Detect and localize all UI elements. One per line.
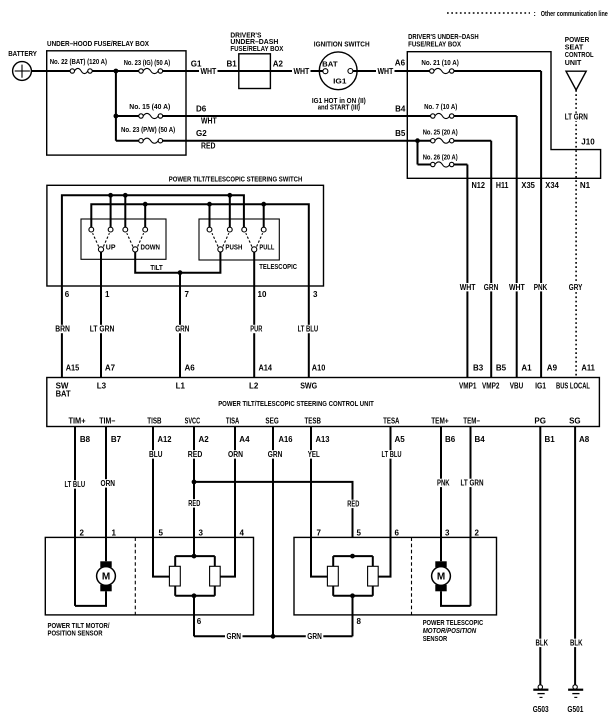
wire tilt sensor pin 6 down — [193, 596, 195, 637]
caption power tilt motor — [48, 623, 110, 638]
svg-text:VMP2: VMP2 — [482, 382, 500, 391]
svg-text:SWG: SWG — [300, 382, 317, 391]
svg-text:PG: PG — [534, 416, 546, 425]
telescopic position sensor — [311, 537, 391, 598]
wire UP contact to L3 — [100, 252, 102, 378]
wire fuse21 down to X34 — [540, 71, 542, 178]
svg-text:LT BLU: LT BLU — [298, 325, 319, 334]
svg-text:IG1: IG1 — [333, 78, 347, 85]
wire fuse26 down to N12 — [466, 165, 468, 179]
power seat control unit — [565, 37, 594, 90]
under-hood fuse/relay box — [47, 51, 186, 155]
wire ignition to driver's box A6 — [353, 59, 408, 76]
tilt switch (UP/DOWN) — [81, 219, 166, 259]
node junction under-hood G1 row — [114, 69, 119, 74]
wire TISA A4 — [227, 427, 245, 577]
svg-text:A6: A6 — [395, 59, 406, 68]
svg-text:M: M — [102, 572, 110, 583]
svg-text:BUS LOCAL: BUS LOCAL — [556, 382, 590, 391]
svg-text:RED: RED — [188, 499, 200, 508]
wire SVCC RED branch to telescopic pin 5 — [187, 480, 361, 538]
svg-text:SG: SG — [569, 416, 581, 425]
caption power telescopic motor — [423, 620, 484, 643]
svg-text:B6: B6 — [445, 435, 456, 444]
legend: other communication line — [447, 11, 608, 18]
svg-text:Other communication line: Other communication line — [541, 11, 608, 18]
svg-text:X34: X34 — [545, 181, 559, 190]
fuse No.25 (20 A) — [407, 130, 491, 144]
wire bus A (switch feed) — [62, 193, 244, 378]
svg-text:H11: H11 — [496, 181, 509, 190]
connector labels under driver's box — [472, 181, 591, 190]
wire X34 to IG1 — [532, 178, 549, 377]
svg-text:BRN: BRN — [55, 325, 70, 334]
svg-text:TIM−: TIM− — [99, 416, 115, 425]
svg-text:A10: A10 — [312, 363, 326, 372]
svg-text:LT GRN: LT GRN — [461, 479, 484, 488]
svg-text:No. 23 (IG) (50 A): No. 23 (IG) (50 A) — [124, 60, 171, 67]
svg-text:SENSOR: SENSOR — [423, 636, 448, 643]
wire GRN ground bus — [194, 632, 353, 641]
svg-text:G503: G503 — [533, 705, 549, 714]
svg-text:6: 6 — [395, 528, 400, 537]
svg-text:TEM+: TEM+ — [431, 416, 449, 425]
svg-text:BAT: BAT — [322, 61, 338, 68]
svg-text:WHT: WHT — [201, 67, 217, 76]
wire SG A8 — [569, 427, 585, 685]
svg-text:D6: D6 — [196, 104, 207, 113]
svg-text:GRN: GRN — [227, 632, 242, 641]
svg-text:POWER: POWER — [565, 37, 590, 44]
fuse No.21 (10 A) — [407, 60, 541, 74]
svg-text:FUSE/RELAY BOX: FUSE/RELAY BOX — [230, 46, 283, 53]
svg-text:VBU: VBU — [510, 382, 524, 391]
svg-text:TISB: TISB — [147, 416, 161, 425]
wire TIM- B7 — [99, 427, 117, 562]
power tilt motor/position sensor box — [45, 537, 253, 615]
svg-text:LT BLU: LT BLU — [382, 450, 402, 459]
svg-text:B1: B1 — [227, 59, 238, 68]
wire fuse25 down to H11 — [490, 141, 492, 179]
svg-text:TELESCOPIC: TELESCOPIC — [259, 264, 297, 271]
motor M1 tilt — [97, 561, 116, 591]
fuse No.26 (20 A) — [418, 141, 468, 167]
svg-text:WHT: WHT — [378, 67, 394, 76]
wire node to L1 — [179, 273, 181, 378]
svg-text:N12: N12 — [472, 181, 486, 190]
svg-text:and START (III): and START (III) — [318, 105, 360, 112]
svg-text:6: 6 — [65, 290, 70, 299]
wire dotted LT GRN bus local line — [563, 90, 595, 378]
svg-text:4: 4 — [240, 528, 245, 537]
svg-text:ORN: ORN — [101, 479, 116, 488]
wire TEM+ B6 — [436, 427, 452, 562]
wire PULL contact to L2 — [253, 252, 255, 378]
ground G503 — [533, 685, 549, 714]
svg-text:YEL: YEL — [308, 450, 320, 459]
svg-text:M: M — [437, 572, 445, 583]
svg-text:B1: B1 — [545, 435, 556, 444]
svg-text:ORN: ORN — [228, 450, 243, 459]
svg-text:X35: X35 — [521, 181, 535, 190]
svg-text:PUSH: PUSH — [225, 244, 242, 251]
svg-text:PNK: PNK — [437, 479, 450, 488]
svg-text:A6: A6 — [185, 363, 196, 372]
svg-text:L3: L3 — [97, 382, 107, 391]
node junction B5 row — [415, 138, 420, 143]
svg-text:No. 25 (20 A): No. 25 (20 A) — [423, 130, 458, 137]
wire DOWN contact to node — [135, 252, 180, 273]
svg-text:GRN: GRN — [175, 325, 189, 334]
wire fuse7 down to X35 — [516, 116, 518, 178]
svg-text:UNIT: UNIT — [565, 60, 582, 67]
wire N12 to VMP1 — [458, 178, 477, 377]
svg-text:TIM+: TIM+ — [69, 416, 86, 425]
power telescopic motor/position sensor box — [294, 537, 497, 615]
svg-text:B7: B7 — [111, 435, 122, 444]
driver's under-dash fuse/relay box (right) — [407, 34, 600, 179]
svg-text:B3: B3 — [473, 363, 484, 372]
svg-text:POSITION SENSOR: POSITION SENSOR — [48, 631, 103, 638]
svg-text:A2: A2 — [273, 59, 284, 68]
ground G501 — [567, 685, 583, 714]
svg-text:3: 3 — [199, 528, 204, 537]
svg-text:B4: B4 — [475, 435, 486, 444]
motor M2 telescopic — [432, 561, 451, 591]
power tilt/telescopic steering switch box — [47, 177, 324, 287]
svg-text:WHT: WHT — [294, 67, 310, 76]
svg-text:SEG: SEG — [265, 416, 278, 425]
svg-text:5: 5 — [159, 528, 164, 537]
wire TEM- B4 — [459, 427, 485, 606]
wire PG B1 — [534, 427, 550, 685]
svg-text:TESA: TESA — [383, 416, 400, 425]
svg-text:DOWN: DOWN — [141, 244, 161, 251]
wire telescopic sensor pin 8 down — [352, 596, 354, 637]
wire X35 to VBU — [508, 178, 527, 377]
dashed divider telescopic box — [411, 537, 413, 615]
svg-text:UP: UP — [106, 244, 116, 251]
svg-text:IGNITION SWITCH: IGNITION SWITCH — [314, 42, 370, 49]
svg-text:DRIVER'S UNDER–DASH: DRIVER'S UNDER–DASH — [408, 34, 479, 41]
wire vertical junction feed — [115, 71, 117, 141]
svg-text:G501: G501 — [567, 705, 583, 714]
svg-text::: : — [534, 11, 536, 18]
switch pin numbers — [65, 290, 318, 299]
svg-text:TESB: TESB — [305, 416, 322, 425]
wire TEM- around to telescopic motor bottom — [441, 591, 471, 606]
tilt position sensor — [153, 537, 235, 598]
svg-text:A7: A7 — [105, 363, 116, 372]
svg-text:UNDER–HOOD FUSE/RELAY BOX: UNDER–HOOD FUSE/RELAY BOX — [47, 41, 149, 48]
svg-text:GRY: GRY — [569, 283, 583, 292]
wire battery to under-hood box — [31, 70, 46, 72]
svg-text:POWER TILT/TELESCOPIC STEERING: POWER TILT/TELESCOPIC STEERING CONTROL U… — [218, 401, 374, 408]
svg-text:8: 8 — [357, 617, 362, 626]
node junction D6 row — [114, 114, 119, 119]
svg-text:7: 7 — [185, 290, 190, 299]
svg-text:POWER TILT MOTOR/: POWER TILT MOTOR/ — [48, 623, 110, 630]
driver's under-dash fuse/relay box (small, pass-through) — [230, 33, 283, 89]
wire H11 to VMP2 — [483, 178, 501, 377]
svg-text:B5: B5 — [496, 363, 507, 372]
svg-text:TISA: TISA — [226, 416, 240, 425]
svg-text:A16: A16 — [279, 435, 294, 444]
svg-text:LT BLU: LT BLU — [65, 480, 86, 489]
svg-text:3: 3 — [313, 290, 318, 299]
svg-text:SVCC: SVCC — [185, 416, 201, 425]
svg-text:PULL: PULL — [259, 244, 275, 251]
wire fuse22 to fuse23 with node — [92, 70, 139, 72]
svg-text:BLU: BLU — [149, 450, 163, 459]
fuse No.23 (IG) (50 A) — [124, 60, 186, 74]
svg-text:VMP1: VMP1 — [459, 382, 477, 391]
svg-text:A1: A1 — [521, 363, 532, 372]
svg-text:No. 22 (BAT) (120 A): No. 22 (BAT) (120 A) — [50, 59, 107, 66]
svg-text:No. 21 (10 A): No. 21 (10 A) — [421, 60, 458, 67]
wire N1 to BUS LOCAL label GRY — [568, 283, 585, 292]
svg-text:A13: A13 — [316, 435, 331, 444]
svg-text:No. 23 (P/W) (50 A): No. 23 (P/W) (50 A) — [121, 127, 175, 134]
svg-text:A12: A12 — [158, 435, 173, 444]
svg-text:FUSE/RELAY BOX: FUSE/RELAY BOX — [408, 42, 461, 49]
svg-text:LT GRN: LT GRN — [90, 325, 115, 334]
svg-text:WHT: WHT — [201, 117, 217, 126]
svg-text:L1: L1 — [176, 382, 186, 391]
pin numbers above telescopic box — [317, 528, 480, 537]
fuse No.15 (40 A) — [116, 104, 186, 119]
svg-text:GRN: GRN — [484, 283, 499, 292]
svg-text:IG1: IG1 — [535, 382, 546, 391]
svg-text:2: 2 — [80, 528, 85, 537]
wire G1 row to small under-dash box — [186, 59, 239, 76]
svg-text:PNK: PNK — [534, 283, 548, 292]
wire SEG A16 — [266, 427, 284, 637]
control unit bottom pin names — [69, 416, 581, 425]
battery — [8, 51, 37, 80]
wire TIM+ around to tilt motor bottom — [75, 591, 106, 606]
wire color labels switch to control unit — [54, 325, 320, 334]
svg-text:7: 7 — [317, 528, 322, 537]
svg-text:2: 2 — [475, 528, 480, 537]
wire TISB A12 — [148, 427, 165, 577]
svg-text:G2: G2 — [196, 129, 207, 138]
svg-text:A9: A9 — [547, 363, 558, 372]
svg-text:RED: RED — [188, 450, 203, 459]
wire bus B (switch ground) — [91, 202, 308, 378]
connector labels above control unit — [66, 363, 596, 372]
wire D6 row — [186, 104, 407, 125]
svg-text:WHT: WHT — [460, 283, 476, 292]
svg-text:1: 1 — [112, 528, 117, 537]
ignition switch — [312, 42, 370, 112]
svg-text:L2: L2 — [249, 382, 259, 391]
wire A2 to ignition switch — [270, 59, 323, 76]
connector labels below control unit — [80, 435, 590, 444]
pin numbers above tilt motor box — [80, 528, 245, 537]
svg-text:BLK: BLK — [536, 639, 549, 648]
svg-text:LT GRN: LT GRN — [565, 113, 588, 122]
svg-text:BAT: BAT — [56, 389, 71, 398]
telescopic switch (PUSH/PULL) — [199, 219, 279, 260]
svg-text:A15: A15 — [66, 363, 80, 372]
svg-text:N1: N1 — [580, 181, 591, 190]
svg-text:MOTOR/POSITION: MOTOR/POSITION — [423, 628, 477, 635]
svg-text:A14: A14 — [259, 363, 273, 372]
svg-text:TEM−: TEM− — [463, 416, 480, 425]
fuse No.7 (10 A) — [407, 104, 516, 119]
svg-text:1: 1 — [105, 290, 110, 299]
wire TESB A13 — [306, 427, 321, 577]
svg-text:No. 7 (10 A): No. 7 (10 A) — [424, 104, 457, 111]
svg-text:POWER TILT/TELESCOPIC STEERING: POWER TILT/TELESCOPIC STEERING SWITCH — [169, 177, 302, 184]
svg-text:SEAT: SEAT — [565, 45, 584, 52]
node DOWN/PUSH junction — [178, 270, 183, 275]
svg-text:5: 5 — [357, 528, 362, 537]
svg-text:WHT: WHT — [509, 283, 525, 292]
wire G2 row — [186, 129, 407, 151]
svg-text:A5: A5 — [395, 435, 406, 444]
control unit top pin names — [56, 382, 590, 399]
svg-text:10: 10 — [258, 290, 267, 299]
svg-text:B8: B8 — [80, 435, 91, 444]
svg-text:A4: A4 — [239, 435, 250, 444]
wire TESA A5 — [380, 427, 403, 577]
svg-text:A2: A2 — [199, 435, 210, 444]
svg-text:PUR: PUR — [250, 325, 262, 334]
svg-text:B5: B5 — [395, 129, 406, 138]
wire PUSH contact to node — [180, 252, 220, 273]
svg-text:POWER TELESCOPIC: POWER TELESCOPIC — [423, 620, 484, 627]
wire SVCC A2 — [186, 427, 204, 557]
svg-text:3: 3 — [445, 528, 450, 537]
svg-text:RED: RED — [347, 500, 359, 509]
svg-text:CONTROL: CONTROL — [565, 52, 594, 59]
svg-text:A8: A8 — [579, 435, 590, 444]
svg-text:6: 6 — [197, 617, 202, 626]
svg-text:TILT: TILT — [150, 265, 163, 272]
wire TIM+ B8 — [63, 427, 90, 606]
dashed divider tilt box — [134, 537, 136, 615]
power tilt/telescopic steering control unit — [47, 378, 600, 427]
svg-text:GRN: GRN — [307, 632, 322, 641]
svg-text:BLK: BLK — [570, 639, 583, 648]
svg-text:B4: B4 — [395, 104, 406, 113]
svg-text:No. 15 (40 A): No. 15 (40 A) — [129, 104, 170, 111]
fuse No.22 (BAT) (120 A) — [47, 59, 107, 74]
fuse No.23 (P/W) (50 A) — [116, 127, 186, 143]
svg-text:No. 26 (20 A): No. 26 (20 A) — [423, 154, 458, 161]
svg-text:A11: A11 — [581, 363, 595, 372]
svg-text:J10: J10 — [581, 138, 595, 147]
svg-text:GRN: GRN — [268, 450, 283, 459]
svg-text:BATTERY: BATTERY — [8, 51, 37, 58]
svg-text:RED: RED — [201, 141, 216, 150]
